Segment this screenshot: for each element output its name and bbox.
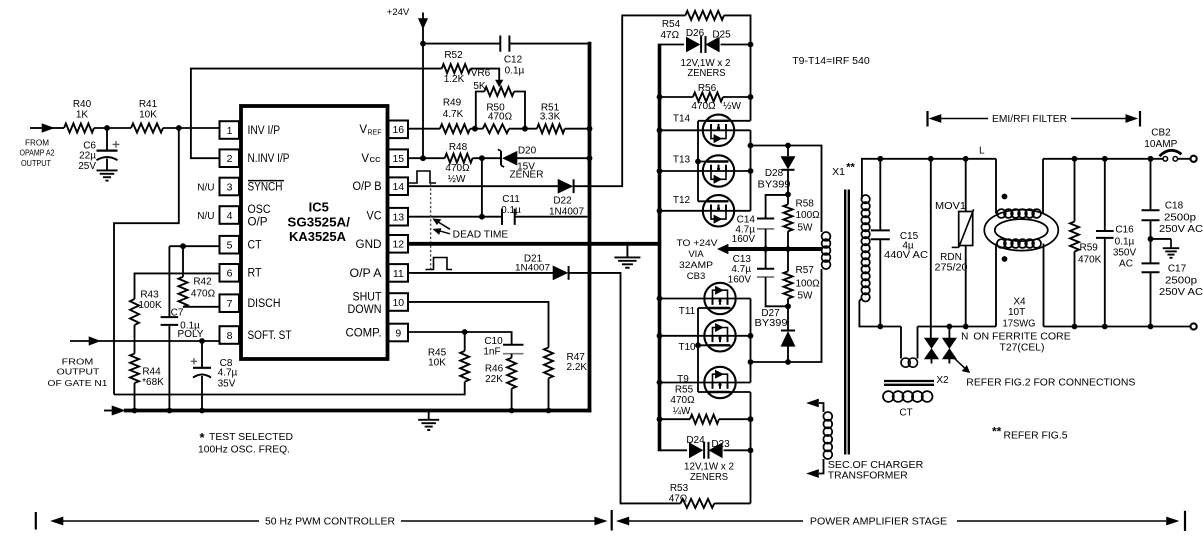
svg-text:3.3K: 3.3K xyxy=(540,111,561,122)
svg-text:5K: 5K xyxy=(473,81,486,92)
svg-text:2.2K: 2.2K xyxy=(567,362,588,373)
svg-text:T14: T14 xyxy=(673,114,691,125)
ground bus pin 12 row xyxy=(409,242,661,246)
resistor R54 47ohm xyxy=(685,11,724,20)
transistor Q T14 xyxy=(703,115,734,146)
svg-text:R57: R57 xyxy=(796,265,815,276)
svg-text:C7: C7 xyxy=(171,307,184,318)
svg-text:0.1µ: 0.1µ xyxy=(505,66,525,77)
svg-text:N: N xyxy=(961,332,968,343)
capacitor C14 4.7u 160V xyxy=(766,195,788,218)
svg-text:C16: C16 xyxy=(1115,224,1134,235)
svg-text:KA3525A: KA3525A xyxy=(289,229,347,244)
resistor R59 470K xyxy=(1074,159,1076,222)
node charger-diode column top xyxy=(928,156,934,162)
resistor R42 470ohm xyxy=(182,246,184,277)
inductor X4 top winding in L line xyxy=(997,209,1006,218)
svg-text:470Ω: 470Ω xyxy=(670,395,695,406)
node R48 output / VC supply xyxy=(473,157,502,159)
svg-text:47Ω: 47Ω xyxy=(660,30,679,41)
varistor MOV1 RDN 275/20 xyxy=(965,159,967,212)
svg-text:N/U: N/U xyxy=(197,182,214,193)
svg-text:BY399: BY399 xyxy=(755,318,788,329)
svg-text:RDN: RDN xyxy=(940,252,962,263)
output terminal N xyxy=(1191,323,1197,329)
svg-text:X2: X2 xyxy=(936,375,949,386)
pulse waveform at pin 11 xyxy=(426,258,453,270)
capacitor C15 4u 440V AC xyxy=(879,159,881,230)
svg-text:5W: 5W xyxy=(798,290,814,301)
svg-text:C18: C18 xyxy=(1165,200,1184,211)
svg-text:POWER AMPLIFIER STAGE: POWER AMPLIFIER STAGE xyxy=(810,517,948,528)
svg-text:OUTPUT: OUTPUT xyxy=(57,367,101,377)
pin 5 box xyxy=(220,236,240,254)
svg-text:RT: RT xyxy=(248,268,262,280)
node zener row on gate drive xyxy=(748,42,754,48)
svg-text:EMI/RFI FILTER: EMI/RFI FILTER xyxy=(992,114,1067,125)
svg-text:D28: D28 xyxy=(765,168,784,179)
resistor R53 47ohm xyxy=(681,499,715,508)
main bottom ground bus xyxy=(124,409,591,413)
node C15 top xyxy=(877,156,883,162)
T13 source-drain line xyxy=(660,170,751,172)
wire soft start node row to pin 8 xyxy=(99,340,220,342)
node MOV1 top xyxy=(963,156,969,162)
svg-text:SG3525A/: SG3525A/ xyxy=(287,215,350,230)
svg-text:ZENER: ZENER xyxy=(510,170,544,181)
wire R52 to VR6 wiper xyxy=(471,69,500,80)
T14 source-drain line xyxy=(660,129,751,131)
svg-text:REF: REF xyxy=(368,130,382,137)
wire X1 secondary top to L rail xyxy=(862,159,996,199)
transistor Q T12 xyxy=(703,195,734,226)
svg-text:D25: D25 xyxy=(712,30,731,41)
wire L to charger diode D-left xyxy=(930,159,932,338)
wire pin1 node down to soft-start node and R45 return xyxy=(114,128,179,395)
pulse waveform at pin 14 xyxy=(408,171,436,183)
svg-text:15: 15 xyxy=(392,153,404,165)
arrow from output of gate N1 xyxy=(70,340,89,342)
battery negative arrow into ground bus xyxy=(104,410,112,412)
capacitor C18 2500p 250V AC xyxy=(1150,159,1152,210)
svg-text:10AMP: 10AMP xyxy=(1144,139,1177,150)
svg-text:POLY: POLY xyxy=(178,329,204,340)
resistor R50 470ohm xyxy=(483,124,509,133)
capacitor C17 2500p 250V AC xyxy=(1150,239,1152,263)
svg-text:½W: ½W xyxy=(723,101,741,112)
svg-text:DISCH: DISCH xyxy=(248,298,281,310)
node R49-R50-VR6 junction xyxy=(470,128,483,130)
node pin1 feedback junction xyxy=(176,125,182,131)
svg-text:4: 4 xyxy=(227,210,233,222)
diode D28 BY399 xyxy=(787,146,789,157)
svg-text:ZENERS: ZENERS xyxy=(690,472,728,483)
wire input to R40 xyxy=(52,127,64,129)
svg-text:CB3: CB3 xyxy=(687,271,705,282)
svg-text:+24V: +24V xyxy=(387,7,410,18)
transformer X1 core xyxy=(844,190,846,455)
svg-text:R48: R48 xyxy=(449,142,468,153)
svg-text:cc: cc xyxy=(370,154,382,164)
wire pin 2 loop up and over to R52 xyxy=(191,69,442,159)
pin 14 box xyxy=(389,177,409,195)
svg-text:GND: GND xyxy=(356,239,382,251)
svg-text:T27(CEL): T27(CEL) xyxy=(1000,343,1045,354)
wire pin 15 Vcc row xyxy=(409,157,445,159)
T13 gate line xyxy=(698,161,729,163)
wire R51 to ground bus xyxy=(565,128,590,130)
phase dot bottom xyxy=(1002,256,1008,262)
resistor R57 100ohm 5W xyxy=(787,249,789,271)
svg-text:12V,1W x 2: 12V,1W x 2 xyxy=(684,461,734,472)
svg-text:¼W: ¼W xyxy=(673,405,691,417)
svg-text:VC: VC xyxy=(367,211,382,223)
svg-text:R55: R55 xyxy=(675,385,694,396)
N rail mid segment xyxy=(918,326,997,328)
pin 12 box xyxy=(389,235,409,253)
resistor R52 1.2K xyxy=(442,64,471,73)
ground symbol on bottom bus xyxy=(428,412,430,419)
MOSFET source bus left xyxy=(658,44,662,452)
N rail right segment xyxy=(1044,326,1191,328)
resistor R51 3.3K xyxy=(537,124,565,133)
svg-text:0.1µ: 0.1µ xyxy=(501,205,521,216)
resistor R48 470ohm half W xyxy=(445,154,473,163)
transformer X1 primary winding xyxy=(822,232,831,241)
svg-text:IC5: IC5 xyxy=(309,200,329,215)
svg-text:160V: 160V xyxy=(732,234,756,245)
svg-text:O/P: O/P xyxy=(248,216,268,228)
svg-text:SOFT. ST: SOFT. ST xyxy=(248,330,292,342)
wire R45 bottom feedback return xyxy=(114,382,465,395)
svg-text:2: 2 xyxy=(227,153,233,165)
wire X1 primary bottom to drain bus xyxy=(751,269,822,362)
svg-text:R40: R40 xyxy=(73,99,92,110)
wire pin 5 CT row xyxy=(169,245,219,247)
svg-text:R58: R58 xyxy=(796,198,815,209)
svg-text:X4: X4 xyxy=(1013,296,1026,307)
svg-text:R52: R52 xyxy=(444,50,463,61)
to +24V via CB3 arrow xyxy=(718,244,728,254)
drain bus bottom bank xyxy=(750,299,752,383)
svg-text:160V: 160V xyxy=(728,274,752,285)
svg-text:440V AC: 440V AC xyxy=(884,250,928,261)
transformer X1 secondary winding xyxy=(861,195,869,203)
wire +24V down to Vcc pin 15 xyxy=(422,44,424,159)
svg-text:ZENERS: ZENERS xyxy=(688,68,726,79)
pin 10 box xyxy=(389,293,409,311)
svg-text:COMP.: COMP. xyxy=(346,328,382,340)
T12 gate line xyxy=(698,200,729,202)
wire pin 11 O/P A row xyxy=(409,272,553,274)
charger connection diodes left pair xyxy=(925,338,939,348)
resistor R43 100K xyxy=(135,273,220,299)
capacitor C13 4.7u 160V xyxy=(765,249,767,269)
wire drain bus to X1 primary top xyxy=(751,146,822,233)
zener pair D26 D25 12V 1W xyxy=(686,37,699,52)
pin 2 box xyxy=(220,149,240,167)
svg-text:32AMP: 32AMP xyxy=(679,260,713,271)
resistor R55 470ohm quarter W xyxy=(660,418,691,420)
svg-text:V: V xyxy=(359,124,367,136)
svg-text:250V AC: 250V AC xyxy=(1159,224,1203,235)
svg-text:50 Hz PWM CONTROLLER: 50 Hz PWM CONTROLLER xyxy=(265,516,395,527)
transistor Q T9 xyxy=(704,367,735,398)
svg-text:2500p: 2500p xyxy=(1165,276,1197,287)
T11 source-drain line xyxy=(660,298,751,300)
node +24V xyxy=(420,41,426,47)
inductor X4 toroid core xyxy=(984,210,1058,251)
resistor R56 470ohm half W xyxy=(660,96,693,98)
svg-text:MOV1: MOV1 xyxy=(935,201,966,212)
svg-text:CT: CT xyxy=(248,240,262,252)
wire R41 to pin 1 xyxy=(163,127,220,129)
ground symbol on pin-12 bus xyxy=(626,244,628,257)
svg-text:13: 13 xyxy=(392,212,404,224)
svg-text:D22: D22 xyxy=(553,196,572,207)
input from opamp A2 arrow xyxy=(30,127,42,129)
T9 source-drain line xyxy=(660,382,751,384)
op-amp U1 IC5 SG3525A body xyxy=(241,106,388,359)
wire R54 to gate bus xyxy=(724,15,751,120)
svg-text:22K: 22K xyxy=(485,374,503,385)
node C15 bottom xyxy=(877,324,883,330)
EMI/RFI filter annotation xyxy=(926,111,928,127)
resistor R40 1K xyxy=(64,124,94,133)
wire source bus to D24 xyxy=(660,449,688,451)
svg-text:7: 7 xyxy=(227,298,233,310)
svg-text:470Ω: 470Ω xyxy=(191,289,216,300)
svg-text:R54: R54 xyxy=(662,19,681,30)
svg-text:1K: 1K xyxy=(76,109,89,120)
pin 11 box xyxy=(389,264,409,282)
svg-text:25V: 25V xyxy=(78,161,96,172)
dead time arrows and label xyxy=(436,221,450,229)
svg-text:N.INV I/P: N.INV I/P xyxy=(248,153,290,165)
wire pin 14 O/P B row xyxy=(409,185,558,187)
capacitor C12 0.1u xyxy=(423,43,500,45)
node C6 junction xyxy=(104,125,110,131)
svg-text:O/P B: O/P B xyxy=(353,181,382,193)
wire source bus to D26 xyxy=(660,44,685,46)
output terminal L xyxy=(1191,156,1197,162)
svg-text:OF GATE N1: OF GATE N1 xyxy=(48,378,108,388)
thick +24V centre-tap line xyxy=(727,247,822,251)
svg-text:14: 14 xyxy=(392,181,404,193)
resistor R45 10K xyxy=(464,332,466,351)
thick ground vertical xyxy=(588,42,592,413)
gate bus bottom bank xyxy=(697,308,699,392)
svg-text:4.7µ: 4.7µ xyxy=(218,367,238,378)
svg-text:OUTPUT: OUTPUT xyxy=(21,158,52,168)
L rail right segment xyxy=(1043,158,1163,160)
svg-text:D20: D20 xyxy=(518,145,537,156)
svg-text:470Ω: 470Ω xyxy=(488,111,513,122)
svg-text:N/U: N/U xyxy=(197,211,214,222)
svg-text:CT: CT xyxy=(899,407,912,418)
svg-text:1.2K: 1.2K xyxy=(444,74,465,85)
pin 7 box xyxy=(220,294,240,312)
svg-text:T12: T12 xyxy=(673,195,691,206)
svg-text:0.1µ: 0.1µ xyxy=(1115,236,1135,247)
wire R40 to node xyxy=(94,127,131,129)
svg-text:16: 16 xyxy=(392,124,404,136)
drain bus top bank xyxy=(750,130,752,211)
potentiometer VR6 5K xyxy=(484,87,514,96)
svg-text:TRANSFORMER: TRANSFORMER xyxy=(828,471,908,482)
gate bus top bank xyxy=(697,121,699,202)
svg-text:11: 11 xyxy=(393,268,404,280)
svg-text:12: 12 xyxy=(392,239,404,251)
capacitor C7 0.1u poly xyxy=(168,246,170,317)
svg-text:ON FERRITE CORE: ON FERRITE CORE xyxy=(973,332,1071,343)
T10 gate line xyxy=(698,344,731,346)
dead time dashed marker xyxy=(430,184,432,271)
transformer X2 core xyxy=(884,380,934,382)
pin 1 box xyxy=(220,121,240,139)
svg-text:R42: R42 xyxy=(193,276,212,287)
svg-text:35V: 35V xyxy=(218,378,236,389)
svg-text:TO +24V: TO +24V xyxy=(677,238,719,249)
pin 3 box xyxy=(220,178,240,196)
ground below C6 xyxy=(97,169,118,171)
svg-text:*68K: *68K xyxy=(142,377,164,388)
svg-text:10: 10 xyxy=(392,297,404,309)
svg-text:5W: 5W xyxy=(798,223,814,234)
wire pin 10 shutdown to R47 xyxy=(409,302,549,348)
wire D22 up and over to R54 xyxy=(574,15,686,186)
diode D21 1N4007 xyxy=(553,266,568,280)
svg-text:REFER FIG.2 FOR CONNECTIONS: REFER FIG.2 FOR CONNECTIONS xyxy=(966,377,1135,388)
svg-text:**: ** xyxy=(846,162,855,174)
transistor Q T11 xyxy=(704,283,735,314)
svg-text:C11: C11 xyxy=(502,194,520,205)
pin 15 box xyxy=(389,149,409,167)
svg-text:REFER FIG.5: REFER FIG.5 xyxy=(1004,431,1068,442)
svg-text:2500p: 2500p xyxy=(1164,212,1196,223)
zener diode D20 15V xyxy=(500,151,502,165)
svg-text:100Ω: 100Ω xyxy=(796,210,821,221)
bottom annotation 50Hz PWM controller xyxy=(35,512,37,530)
svg-text:3: 3 xyxy=(227,181,233,193)
svg-text:T9: T9 xyxy=(677,374,689,385)
capacitor C6 22u 25V electrolytic xyxy=(106,128,108,150)
pin 9 box xyxy=(389,324,409,342)
svg-text:CB2: CB2 xyxy=(1151,128,1171,139)
svg-text:350V: 350V xyxy=(1113,247,1137,258)
svg-text:SYNCH: SYNCH xyxy=(248,182,283,194)
svg-text:FROM: FROM xyxy=(62,356,94,366)
transistor Q T13 xyxy=(703,155,734,186)
svg-text:D23: D23 xyxy=(711,439,730,450)
wire VC node down to pin 13 xyxy=(481,158,483,217)
svg-text:C12: C12 xyxy=(504,54,523,65)
svg-text:T11: T11 xyxy=(679,306,696,317)
svg-text:470Ω: 470Ω xyxy=(445,163,470,174)
svg-text:BY399: BY399 xyxy=(758,179,791,190)
wire D21 down and over to R53 xyxy=(569,273,681,504)
svg-text:10K: 10K xyxy=(428,358,446,369)
svg-text:TEST SELECTED: TEST SELECTED xyxy=(209,432,293,443)
svg-text:6: 6 xyxy=(227,268,233,280)
svg-text:5: 5 xyxy=(227,240,233,252)
svg-text:R53: R53 xyxy=(670,483,689,494)
node R56 right on gate drive xyxy=(748,94,754,100)
transformer X2 winding CT xyxy=(883,391,894,402)
resistor R49 4.7K xyxy=(440,124,470,133)
svg-text:O/P A: O/P A xyxy=(350,268,382,280)
svg-text:VR6: VR6 xyxy=(471,68,491,79)
svg-text:9: 9 xyxy=(395,327,401,339)
svg-text:R56: R56 xyxy=(698,83,717,94)
diode D22 1N4007 xyxy=(558,179,573,193)
T11 gate line xyxy=(698,307,731,309)
bottom annotation power amplifier stage xyxy=(617,517,629,525)
svg-text:OPAMP A2: OPAMP A2 xyxy=(20,148,55,158)
T12 source-drain line xyxy=(660,210,751,212)
svg-text:DOWN: DOWN xyxy=(348,304,382,316)
capacitor C11 0.1u xyxy=(501,209,503,225)
svg-text:C17: C17 xyxy=(1168,264,1187,275)
svg-text:250V AC: 250V AC xyxy=(1159,287,1203,298)
pin 16 box xyxy=(389,121,409,139)
refer fig2 arrow xyxy=(955,359,966,369)
transistor Q T10 xyxy=(704,320,735,351)
svg-text:100K: 100K xyxy=(138,300,162,311)
svg-text:1nF: 1nF xyxy=(483,347,500,358)
T14 gate line xyxy=(698,120,751,122)
resistor R47 2.2K xyxy=(544,348,553,379)
charger connection diodes right pair xyxy=(948,327,950,339)
pin 13 box xyxy=(389,208,409,226)
resistor R58 100ohm 5W xyxy=(787,194,789,204)
svg-text:OSC: OSC xyxy=(248,204,271,216)
diode D27 BY399 xyxy=(787,306,789,330)
svg-text:SHUT: SHUT xyxy=(353,292,382,304)
svg-text:D26: D26 xyxy=(686,28,705,39)
charger secondary winding on X1 core xyxy=(819,403,824,412)
svg-text:R41: R41 xyxy=(139,99,158,110)
svg-text:1: 1 xyxy=(227,125,233,137)
svg-text:V: V xyxy=(361,153,369,165)
node R50-R51-VR6 junction xyxy=(509,128,537,130)
svg-text:47Ω: 47Ω xyxy=(669,494,688,505)
svg-text:470K: 470K xyxy=(1078,254,1102,265)
svg-text:100Hz OSC. FREQ.: 100Hz OSC. FREQ. xyxy=(198,444,290,455)
svg-text:T9-T14=IRF 540: T9-T14=IRF 540 xyxy=(792,56,870,67)
svg-text:17SWG: 17SWG xyxy=(1003,319,1036,330)
pin 6 box xyxy=(220,264,240,282)
wire X1 secondary bottom to N rail xyxy=(859,298,901,327)
svg-text:T13: T13 xyxy=(673,154,691,165)
capacitor C16 0.1u 350V AC xyxy=(1104,159,1106,231)
wire pin 13 VC row xyxy=(409,216,502,218)
svg-text:**: ** xyxy=(992,424,1002,438)
svg-text:VIA: VIA xyxy=(688,249,704,260)
svg-text:R59: R59 xyxy=(1080,242,1099,253)
svg-text:D24: D24 xyxy=(686,435,705,446)
resistor R44 68K xyxy=(134,341,136,354)
svg-text:10T: 10T xyxy=(1008,307,1025,318)
svg-text:½W: ½W xyxy=(448,174,466,185)
VR6 wiper arrow xyxy=(496,80,503,87)
ground at C18/C17 junction xyxy=(1151,238,1172,240)
svg-text:FROM: FROM xyxy=(25,137,49,147)
T9 gate line xyxy=(698,391,751,393)
gate drive bus bottom xyxy=(750,392,752,503)
svg-text:100Ω: 100Ω xyxy=(796,279,821,290)
inductor X4 bottom winding in N line xyxy=(997,239,1006,248)
